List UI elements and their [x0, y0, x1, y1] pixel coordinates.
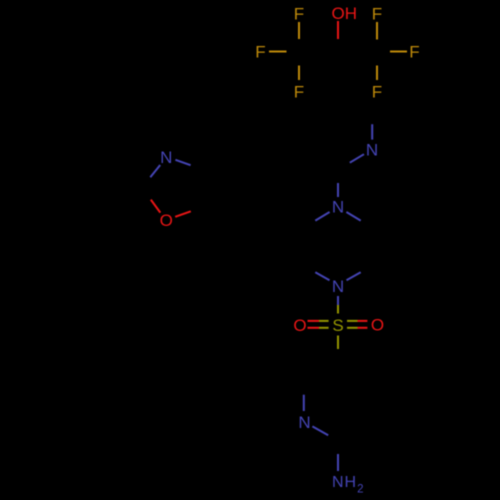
- svg-text:F: F: [372, 5, 382, 24]
- svg-text:OH: OH: [332, 4, 358, 23]
- svg-text:F: F: [294, 83, 304, 102]
- svg-text:S: S: [332, 316, 343, 335]
- svg-text:N: N: [332, 277, 344, 296]
- svg-text:N: N: [366, 141, 378, 160]
- svg-text:F: F: [409, 43, 419, 62]
- svg-text:N: N: [298, 413, 310, 432]
- svg-text:N: N: [332, 198, 344, 217]
- svg-text:N: N: [160, 148, 172, 167]
- svg-text:F: F: [294, 5, 304, 24]
- svg-text:O: O: [371, 316, 384, 335]
- svg-text:O: O: [160, 211, 173, 230]
- svg-text:F: F: [255, 43, 265, 62]
- svg-text:O: O: [293, 316, 306, 335]
- svg-text:F: F: [372, 83, 382, 102]
